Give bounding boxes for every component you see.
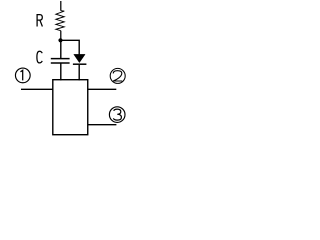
wire terminal 1 to box xyxy=(21,88,53,90)
IC box xyxy=(53,80,88,135)
resistor R xyxy=(56,1,64,39)
node junction (R/C/diode) xyxy=(58,38,62,42)
wire diode cathode to box xyxy=(78,65,80,81)
wire capacitor to box xyxy=(60,64,62,81)
label C xyxy=(37,51,42,63)
capacitor C xyxy=(51,59,70,63)
terminal 2 xyxy=(110,68,125,83)
terminal 1 xyxy=(15,68,30,83)
wire box to terminal 2 xyxy=(88,88,117,90)
terminal 3 xyxy=(109,107,125,123)
diode D xyxy=(73,54,87,64)
label R xyxy=(37,15,42,27)
wire junction to diode anode xyxy=(62,40,79,55)
wire box to terminal 3 xyxy=(88,124,117,126)
wire junction to capacitor xyxy=(60,41,62,59)
